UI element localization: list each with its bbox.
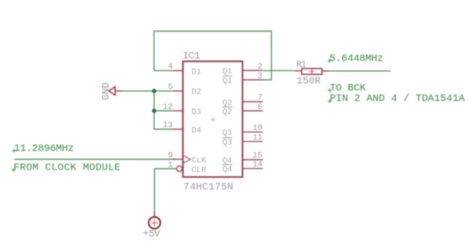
svg-text:GND: GND (101, 82, 112, 100)
svg-text:D2: D2 (192, 88, 202, 97)
IC1 pin 15 stub (242, 159, 262, 161)
text origin cross PIN (328, 99, 332, 103)
GND supply symbol (109, 87, 123, 95)
wire resistor R1 to output right (329, 70, 391, 72)
+5V supply symbol (149, 211, 161, 229)
svg-text:12: 12 (163, 103, 173, 112)
svg-text:D3: D3 (192, 108, 202, 117)
svg-text:5.6448MHz: 5.6448MHz (329, 54, 383, 65)
IC1 pin 3 stub (242, 79, 262, 81)
svg-text:11.2896MHz: 11.2896MHz (14, 144, 74, 155)
svg-text:Q1: Q1 (222, 77, 232, 86)
svg-text:2: 2 (258, 62, 263, 71)
svg-text:Q2: Q2 (222, 108, 232, 117)
text origin cross FROM CLOCK MODULE (12, 168, 16, 172)
svg-text:4: 4 (168, 63, 173, 72)
svg-text:13: 13 (163, 121, 173, 130)
svg-text:D1: D1 (192, 68, 202, 77)
svg-text:D4: D4 (192, 126, 202, 135)
svg-text:11: 11 (253, 134, 263, 143)
svg-text:Q4: Q4 (222, 166, 232, 175)
svg-text:9: 9 (168, 151, 173, 160)
IC1 pin 14 stub (242, 168, 262, 170)
svg-text:14: 14 (253, 161, 263, 170)
svg-text:Q3: Q3 (222, 139, 232, 148)
text origin cross TO BCK (328, 88, 332, 92)
pin name Q1bar (222, 76, 232, 86)
svg-text:74HC175N: 74HC175N (183, 183, 233, 194)
svg-text:7: 7 (258, 94, 263, 103)
svg-text:150R: 150R (297, 76, 321, 87)
pin name Q3bar (222, 138, 232, 148)
text origin cross 5.6448MHz (327, 59, 331, 63)
svg-text:Q1: Q1 (222, 68, 232, 77)
IC1 pin 11 stub (242, 141, 262, 143)
IC1 pin 13 stub (173, 128, 183, 130)
svg-text:10: 10 (253, 124, 263, 133)
IC1 pin 10 stub (242, 131, 262, 133)
pin name Q4bar (222, 165, 232, 175)
svg-text:CLK: CLK (192, 157, 207, 166)
IC1 pin 4 stub (173, 70, 183, 72)
svg-text:3: 3 (258, 72, 263, 81)
wire clock input net to CLK pin9 (14, 158, 176, 160)
wire +5V to CLR pin1 (155, 169, 177, 211)
IC1 pin 6 stub (242, 110, 262, 112)
IC1 pin 5 stub (173, 90, 183, 92)
svg-text:15: 15 (253, 152, 263, 161)
svg-text:Q3: Q3 (222, 129, 232, 138)
svg-text:PIN 2 AND 4 / TDA1541A: PIN 2 AND 4 / TDA1541A (330, 93, 466, 105)
resistor R1 (295, 69, 329, 75)
pin name Q2bar (222, 107, 232, 117)
IC1 pin 7 stub (242, 101, 262, 103)
svg-text:CLR: CLR (192, 166, 207, 175)
IC U1 74HC175N body (183, 61, 242, 176)
svg-text:6: 6 (258, 103, 263, 112)
IC1 pin 9 stub (173, 158, 183, 160)
text origin cross 11.2896MHz (12, 149, 16, 153)
wire net N$1 feedback loop Q1bar to D1 (154, 31, 271, 80)
junction dot at pin12 (152, 109, 156, 113)
IC1 clock triangle (184, 156, 191, 163)
svg-text:FROM CLOCK MODULE: FROM CLOCK MODULE (14, 163, 121, 174)
wire Q1 output to resistor R1 (263, 70, 295, 72)
junction dot at GND/pin5 (152, 89, 156, 93)
IC1 pin 1 CLR bubble (177, 166, 183, 172)
IC1 pin 2 stub (242, 69, 262, 71)
IC1 pin 12 stub (173, 110, 183, 112)
svg-text:1: 1 (168, 161, 173, 170)
svg-text:IC1: IC1 (183, 52, 201, 63)
svg-text:5: 5 (168, 83, 173, 92)
svg-text:R1: R1 (296, 60, 306, 70)
wire net GND row to pin5/pin12/pin13 (123, 91, 173, 129)
svg-text:TO BCK: TO BCK (330, 83, 367, 94)
svg-text:+5V: +5V (143, 229, 161, 240)
